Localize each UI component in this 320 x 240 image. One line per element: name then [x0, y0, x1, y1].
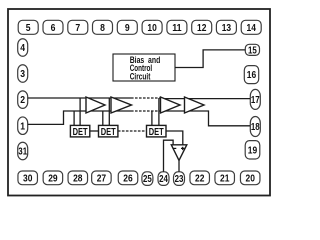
pin 8 [93, 20, 113, 34]
upper rail right to pin 17 [161, 98, 251, 100]
svg-text:23: 23 [175, 174, 184, 185]
wire pin24 to comparator minus input [164, 140, 174, 172]
comparator minus input label [173, 147, 176, 149]
pin 6 [43, 20, 63, 34]
pin 10 [142, 20, 162, 34]
svg-text:29: 29 [48, 174, 58, 185]
pin 16 [244, 66, 258, 84]
svg-text:14: 14 [247, 23, 257, 34]
dashed upper rail segment [131, 97, 161, 99]
comparator plus input label [181, 147, 184, 150]
pin 26 [118, 171, 138, 185]
svg-text:27: 27 [97, 174, 106, 185]
wire bias block to pin 15 [175, 50, 245, 68]
svg-text:9: 9 [125, 23, 130, 34]
pin 31 [18, 142, 28, 160]
lower rail right and wire to pin 18 [161, 111, 251, 126]
svg-text:11: 11 [172, 23, 182, 34]
pin 29 [43, 171, 63, 185]
pin 15 [245, 44, 259, 56]
svg-text:6: 6 [51, 23, 56, 34]
pin 14 [241, 20, 261, 34]
svg-text:10: 10 [147, 23, 156, 34]
pin 30 [18, 171, 38, 185]
pin 9 [117, 20, 137, 34]
detector DET2 [99, 125, 118, 138]
svg-text:DET: DET [73, 126, 88, 138]
pin 23 [174, 172, 185, 186]
package outline [8, 9, 270, 196]
pin 17 [250, 89, 260, 109]
wire DET2 input taps [103, 98, 110, 125]
pin 5 [18, 20, 38, 34]
pin 27 [92, 171, 112, 185]
svg-text:28: 28 [73, 174, 83, 185]
svg-text:19: 19 [248, 145, 258, 156]
svg-text:1: 1 [20, 121, 25, 132]
svg-text:31: 31 [18, 147, 27, 158]
svg-text:25: 25 [143, 174, 152, 185]
svg-text:Circuit: Circuit [130, 71, 151, 81]
svg-text:7: 7 [75, 23, 80, 34]
svg-text:20: 20 [246, 174, 255, 185]
pin 25 [142, 172, 153, 186]
svg-text:16: 16 [247, 70, 257, 81]
svg-text:13: 13 [222, 23, 232, 34]
pin 24 [158, 172, 169, 186]
pin 1 [18, 117, 28, 135]
svg-text:DET: DET [149, 126, 164, 138]
pin 3 [18, 65, 28, 83]
pin 21 [215, 171, 235, 185]
wire pin2 to upper rail [28, 97, 131, 99]
pin 7 [68, 20, 88, 34]
svg-text:24: 24 [159, 174, 168, 185]
svg-text:26: 26 [123, 174, 133, 185]
svg-text:4: 4 [20, 43, 25, 54]
bias and control circuit block [113, 54, 175, 81]
dashed wire DET2 to DET3 [118, 130, 147, 132]
pin 13 [216, 20, 236, 34]
detector DET1 [70, 125, 89, 138]
amplifier A4 [185, 97, 205, 113]
amplifier A1 [86, 97, 105, 113]
pin 2 [18, 91, 28, 109]
pin 20 [240, 171, 260, 185]
svg-text:12: 12 [197, 23, 206, 34]
amplifier A3 [161, 97, 181, 113]
dashed lower rail segment [131, 110, 161, 112]
svg-text:17: 17 [251, 95, 260, 106]
svg-text:5: 5 [26, 23, 31, 34]
svg-text:2: 2 [20, 95, 25, 106]
detector DET3 [147, 125, 167, 138]
svg-text:21: 21 [220, 174, 230, 185]
pin 12 [192, 20, 212, 34]
pin 22 [190, 171, 210, 185]
svg-text:22: 22 [195, 174, 204, 185]
pin 11 [167, 20, 187, 34]
pin 4 [18, 39, 28, 57]
wire pin1 to lower rail [28, 111, 131, 124]
pin 18 [250, 117, 260, 137]
wire DET3 to comparator plus input [166, 131, 183, 145]
amplifier A2 [111, 97, 132, 113]
svg-text:3: 3 [20, 69, 25, 80]
svg-text:DET: DET [101, 126, 116, 138]
wire DET1 input taps [74, 98, 80, 125]
svg-text:15: 15 [248, 46, 257, 57]
pin 19 [245, 141, 260, 159]
svg-text:8: 8 [100, 23, 105, 34]
svg-text:18: 18 [251, 122, 260, 133]
pin 28 [68, 171, 88, 185]
wire DET1 to DET2 [90, 130, 99, 132]
comparator U1 [171, 145, 187, 161]
svg-text:30: 30 [23, 174, 32, 185]
wire DET3 input taps [152, 98, 159, 125]
wire comparator output to pin 23 [178, 160, 180, 171]
